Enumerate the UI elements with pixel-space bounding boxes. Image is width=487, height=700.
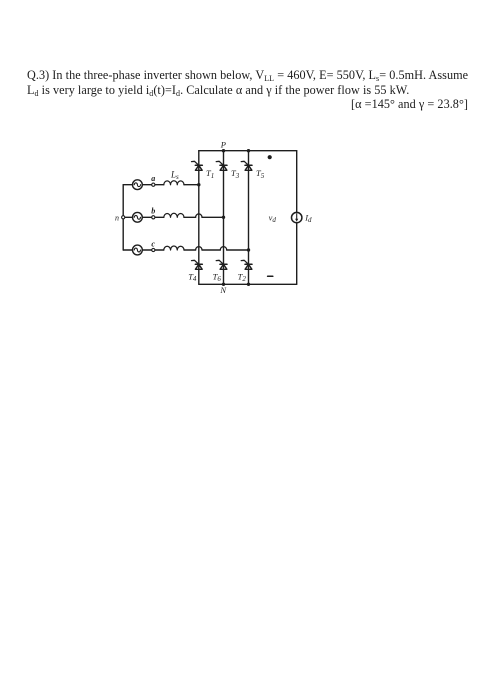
svg-text:c: c	[151, 239, 155, 248]
svg-text:T3: T3	[231, 168, 240, 180]
junction dot top rail leg3	[247, 149, 250, 152]
current source Id	[292, 212, 302, 222]
answer text line 3	[351, 97, 468, 112]
source phase c	[133, 245, 143, 255]
question text line 1	[27, 68, 468, 83]
label T2	[238, 271, 247, 283]
wire right branch	[296, 151, 298, 285]
node c junction dot	[247, 248, 250, 251]
wire hop phase c over leg 1	[196, 247, 202, 250]
label N	[219, 285, 227, 295]
wire leg 3 (T5/T2)	[248, 151, 250, 285]
wire phase c	[123, 249, 248, 251]
svg-text:T2: T2	[238, 271, 247, 283]
source phase a	[133, 180, 143, 190]
svg-text:T6: T6	[213, 271, 222, 283]
source phase b	[133, 212, 143, 222]
svg-text:Ls: Ls	[170, 170, 179, 182]
wire bottom DC rail N	[199, 283, 297, 285]
label T4	[188, 271, 197, 283]
label b	[151, 207, 155, 216]
svg-text:Id: Id	[304, 213, 312, 225]
node n	[122, 216, 125, 219]
label vd	[269, 213, 277, 225]
terminal b	[152, 216, 155, 219]
thyristor T5	[241, 161, 252, 170]
wire leg 2 (T3/T6)	[223, 151, 225, 285]
svg-text:T1: T1	[206, 168, 214, 180]
wire hop phase b over leg 1	[196, 214, 202, 217]
svg-text:T4: T4	[188, 271, 197, 283]
node N junction dot	[222, 283, 225, 286]
svg-text:P: P	[220, 140, 226, 150]
terminal c	[152, 248, 155, 251]
wire leg 1 (T1/T4)	[198, 151, 200, 285]
label T1	[206, 168, 214, 180]
label T5	[256, 168, 265, 180]
svg-text:vd: vd	[269, 213, 277, 225]
wire left neutral vertical	[122, 185, 124, 250]
label n	[115, 213, 119, 222]
label T6	[213, 271, 222, 283]
inductor Ls phase a	[164, 181, 184, 185]
wire hop phase c over leg 2	[220, 247, 226, 250]
thyristor T2	[241, 260, 252, 269]
wire phase a	[123, 184, 199, 186]
label c	[151, 239, 155, 248]
svg-text:n: n	[115, 213, 119, 222]
node b junction dot	[222, 216, 225, 219]
node P junction dot	[222, 149, 225, 152]
svg-text:a: a	[151, 174, 155, 183]
label T3	[231, 168, 240, 180]
question text line 2	[27, 83, 409, 98]
polarity plus dot	[268, 155, 272, 159]
polarity minus	[268, 275, 273, 277]
junction dot bottom rail leg3	[247, 283, 250, 286]
node a junction dot	[197, 183, 200, 186]
thyristor T3	[216, 161, 227, 170]
inductor phase c	[164, 246, 184, 250]
thyristor T6	[216, 260, 227, 269]
label Id	[304, 213, 312, 225]
svg-text:N: N	[219, 285, 227, 295]
svg-text:T5: T5	[256, 168, 265, 180]
terminal a	[152, 183, 155, 186]
wire top DC rail P	[199, 150, 297, 152]
inductor phase b	[164, 213, 184, 217]
label a	[151, 174, 155, 183]
wire phase b	[125, 216, 224, 218]
label Ls	[170, 170, 179, 182]
thyristor T1	[192, 161, 203, 170]
thyristor T4	[192, 260, 203, 269]
svg-text:b: b	[151, 207, 155, 216]
label P	[220, 140, 226, 150]
